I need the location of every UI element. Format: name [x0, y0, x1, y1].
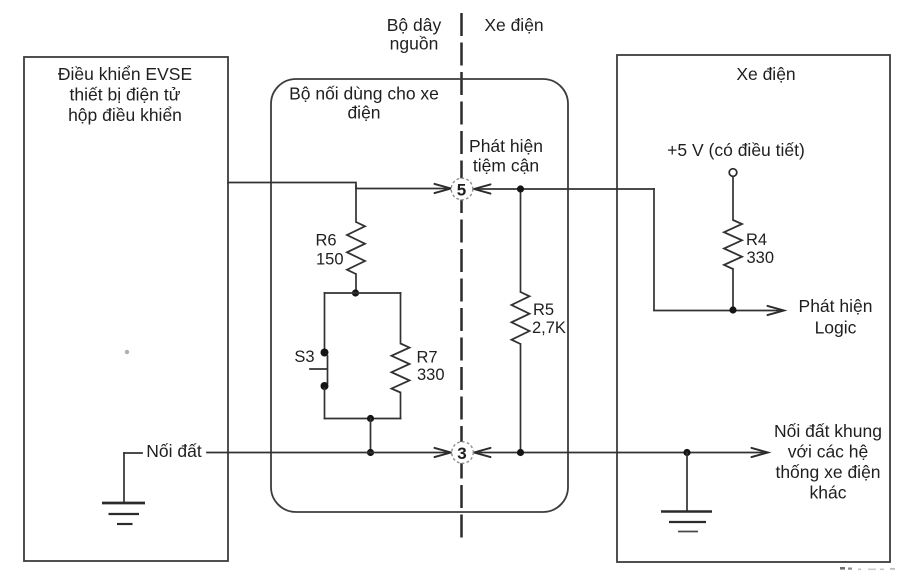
junction: R5 bottom	[517, 449, 524, 456]
svg-text:Điều khiển EVSEthiết bị điện t: Điều khiển EVSEthiết bị điện tửhộp điều …	[58, 64, 192, 125]
junction: R4 bottom	[729, 306, 736, 313]
junction: parallel network bottom	[367, 415, 374, 422]
wire: vehicle branch to node 5, arrow	[474, 184, 654, 193]
wire: node 3 to vehicle chassis, arrows	[474, 448, 768, 457]
resistor R6	[347, 186, 365, 293]
resistor R5	[512, 189, 530, 453]
svg-text:Phát hiệntiệm cận: Phát hiệntiệm cận	[469, 136, 543, 176]
wire: down to logic level	[653, 189, 655, 310]
svg-text:Nối đất: Nối đất	[146, 441, 202, 461]
wire: to detection logic, arrow	[654, 306, 784, 315]
svg-text:5: 5	[457, 181, 466, 200]
node 3	[452, 442, 474, 464]
+5V terminal	[729, 169, 737, 177]
svg-text:Xe điện: Xe điện	[484, 15, 543, 35]
wire: parallel network bottom	[325, 418, 401, 420]
junction: R5 top	[517, 185, 524, 192]
ground symbol (EVSE)	[102, 453, 145, 524]
vehicle box	[617, 55, 890, 562]
svg-text:S3: S3	[294, 348, 314, 366]
wire: control box to R6 corner	[228, 183, 356, 189]
boundary dashed line	[460, 13, 463, 543]
switch S3	[310, 293, 329, 419]
svg-text:Xe điện: Xe điện	[736, 64, 795, 84]
wire: parallel network top	[325, 292, 401, 294]
junction: R6 to parallel network	[352, 289, 359, 296]
resistor R7	[392, 293, 410, 419]
chassis ground symbol	[661, 453, 712, 532]
svg-text:3: 3	[457, 444, 466, 463]
junction: on ground line	[367, 449, 374, 456]
junction: chassis ground	[683, 449, 690, 456]
wire: parallel network to ground line	[370, 419, 372, 453]
resistor R4	[724, 177, 742, 311]
svg-text:+5 V (có điều tiết): +5 V (có điều tiết)	[667, 140, 805, 160]
EVSE control box	[24, 57, 228, 561]
wire: R6 corner to node 5, arrow	[356, 184, 451, 193]
EV connector box	[271, 79, 568, 512]
wire: ground stub	[124, 452, 142, 454]
svg-text:Bộ dâynguồn: Bộ dâynguồn	[387, 15, 442, 54]
wire: ground label to node 3, arrow	[207, 448, 451, 457]
node 5	[451, 178, 473, 200]
